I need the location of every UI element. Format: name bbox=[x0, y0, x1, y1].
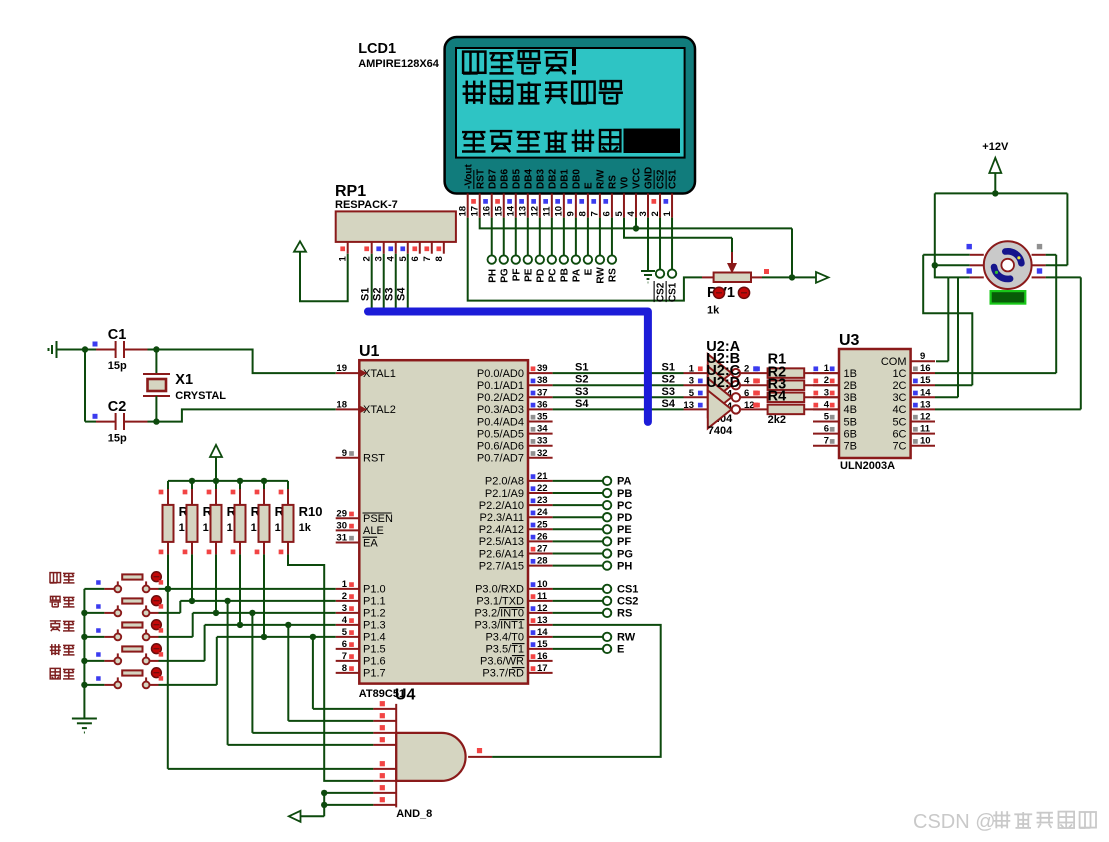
svg-text:RS: RS bbox=[617, 608, 632, 620]
svg-text:LCD1: LCD1 bbox=[358, 41, 396, 57]
svg-text:14: 14 bbox=[920, 387, 931, 398]
svg-text:P3.4/T0: P3.4/T0 bbox=[485, 632, 524, 644]
svg-text:3: 3 bbox=[638, 211, 649, 216]
svg-text:15: 15 bbox=[494, 205, 505, 216]
svg-text:16: 16 bbox=[537, 651, 548, 662]
svg-text:8: 8 bbox=[342, 663, 347, 674]
svg-text:10: 10 bbox=[920, 436, 931, 447]
svg-text:ALE: ALE bbox=[363, 525, 384, 537]
svg-text:12: 12 bbox=[530, 206, 541, 217]
svg-text:6C: 6C bbox=[892, 428, 906, 440]
svg-text:S3: S3 bbox=[662, 386, 675, 398]
svg-text:1: 1 bbox=[662, 211, 673, 217]
svg-text:22: 22 bbox=[537, 483, 548, 494]
svg-text:ULN2003A: ULN2003A bbox=[840, 460, 895, 472]
svg-text:RW: RW bbox=[617, 632, 636, 644]
svg-text:CS1: CS1 bbox=[668, 282, 679, 302]
svg-text:R/W: R/W bbox=[596, 169, 607, 189]
svg-text:10: 10 bbox=[554, 206, 565, 217]
svg-text:3: 3 bbox=[824, 387, 829, 398]
svg-text:6: 6 bbox=[824, 424, 829, 435]
svg-text:2: 2 bbox=[650, 211, 661, 216]
svg-text:PG: PG bbox=[499, 268, 510, 283]
svg-text:GND: GND bbox=[644, 167, 655, 189]
svg-text:P2.4/A12: P2.4/A12 bbox=[479, 524, 524, 536]
svg-text:PE: PE bbox=[617, 524, 632, 536]
svg-text:9: 9 bbox=[342, 448, 347, 459]
svg-text:12: 12 bbox=[920, 412, 931, 423]
svg-text:6: 6 bbox=[744, 388, 749, 399]
svg-text:P1.3: P1.3 bbox=[363, 620, 386, 632]
svg-text:PD: PD bbox=[535, 269, 546, 283]
svg-text:CS2: CS2 bbox=[656, 282, 667, 302]
svg-text:7C: 7C bbox=[892, 441, 906, 453]
svg-text:2: 2 bbox=[342, 591, 347, 602]
svg-text:12: 12 bbox=[537, 603, 548, 614]
svg-text:P2.5/A13: P2.5/A13 bbox=[479, 536, 524, 548]
svg-text:S1: S1 bbox=[662, 362, 675, 374]
svg-text:PF: PF bbox=[511, 269, 522, 282]
svg-text:RP1: RP1 bbox=[335, 183, 366, 200]
svg-text:5: 5 bbox=[689, 388, 695, 399]
svg-text:VCC: VCC bbox=[632, 168, 643, 189]
svg-text:P3.7/RD: P3.7/RD bbox=[482, 668, 524, 680]
svg-text:RST: RST bbox=[363, 453, 385, 465]
svg-text:38: 38 bbox=[537, 375, 548, 386]
svg-text:PE: PE bbox=[523, 268, 534, 282]
svg-text:29: 29 bbox=[336, 508, 347, 519]
svg-text:PB: PB bbox=[559, 268, 570, 282]
svg-text:U4: U4 bbox=[395, 687, 416, 704]
svg-text:3: 3 bbox=[342, 603, 347, 614]
svg-text:7B: 7B bbox=[844, 441, 857, 453]
svg-text:2k2: 2k2 bbox=[768, 414, 786, 426]
svg-text:11: 11 bbox=[920, 424, 931, 435]
svg-text:1B: 1B bbox=[844, 368, 857, 380]
svg-text:PH: PH bbox=[617, 560, 632, 572]
svg-text:34: 34 bbox=[537, 424, 548, 435]
svg-text:P2.2/A10: P2.2/A10 bbox=[479, 500, 524, 512]
svg-text:RST: RST bbox=[475, 169, 486, 189]
svg-text:26: 26 bbox=[537, 531, 548, 542]
svg-text:23: 23 bbox=[537, 495, 548, 506]
svg-text:16: 16 bbox=[920, 363, 931, 374]
svg-text:8: 8 bbox=[578, 211, 589, 216]
svg-text:5: 5 bbox=[614, 211, 625, 217]
svg-text:2: 2 bbox=[824, 375, 829, 386]
svg-text:DB5: DB5 bbox=[511, 169, 522, 189]
svg-text:P0.0/AD0: P0.0/AD0 bbox=[477, 368, 524, 380]
svg-text:24: 24 bbox=[537, 507, 548, 518]
svg-text:3C: 3C bbox=[892, 392, 906, 404]
svg-text:R10: R10 bbox=[299, 504, 323, 519]
svg-text:P1.0: P1.0 bbox=[363, 584, 386, 596]
svg-text:5C: 5C bbox=[892, 416, 906, 428]
svg-text:X1: X1 bbox=[175, 372, 193, 388]
svg-text:PSEN: PSEN bbox=[363, 513, 393, 525]
svg-text:XTAL2: XTAL2 bbox=[363, 404, 396, 416]
svg-text:7: 7 bbox=[422, 256, 433, 261]
svg-text:XTAL1: XTAL1 bbox=[363, 368, 396, 380]
svg-text:11: 11 bbox=[542, 206, 553, 217]
svg-text:P0.7/AD7: P0.7/AD7 bbox=[477, 453, 524, 465]
svg-text:39: 39 bbox=[537, 363, 548, 374]
svg-text:S1: S1 bbox=[360, 288, 372, 301]
svg-text:13: 13 bbox=[537, 615, 548, 626]
svg-text:E: E bbox=[584, 268, 595, 275]
svg-text:2C: 2C bbox=[892, 380, 906, 392]
svg-text:6: 6 bbox=[602, 211, 613, 216]
svg-text:32: 32 bbox=[537, 448, 548, 459]
svg-text:P0.5/AD5: P0.5/AD5 bbox=[477, 428, 524, 440]
svg-text:36: 36 bbox=[537, 399, 548, 410]
svg-text:2: 2 bbox=[744, 364, 749, 375]
svg-text:PB: PB bbox=[617, 488, 632, 500]
svg-text:C2: C2 bbox=[108, 399, 127, 415]
svg-text:7: 7 bbox=[342, 651, 347, 662]
svg-text:13: 13 bbox=[683, 400, 694, 411]
svg-text:S2: S2 bbox=[372, 288, 384, 301]
svg-text:DB3: DB3 bbox=[535, 169, 546, 189]
svg-text:21: 21 bbox=[537, 471, 548, 482]
svg-text:E: E bbox=[584, 182, 595, 189]
svg-text:+12V: +12V bbox=[982, 141, 1009, 153]
svg-text:13: 13 bbox=[518, 206, 529, 217]
svg-text:P1.5: P1.5 bbox=[363, 644, 386, 656]
svg-text:P0.6/AD6: P0.6/AD6 bbox=[477, 441, 524, 453]
svg-text:U2:D: U2:D bbox=[706, 375, 740, 391]
svg-text:27: 27 bbox=[537, 544, 548, 555]
svg-text:17: 17 bbox=[470, 206, 481, 217]
svg-text:12: 12 bbox=[744, 400, 755, 411]
svg-text:AMPIRE128X64: AMPIRE128X64 bbox=[358, 58, 440, 70]
svg-text:14: 14 bbox=[537, 627, 548, 638]
svg-text:DB0: DB0 bbox=[571, 169, 582, 189]
svg-text:13: 13 bbox=[920, 399, 931, 410]
svg-text:33: 33 bbox=[537, 436, 548, 447]
svg-text:11: 11 bbox=[537, 591, 548, 602]
svg-text:7: 7 bbox=[590, 211, 601, 216]
svg-text:1: 1 bbox=[689, 364, 695, 375]
svg-text:7: 7 bbox=[824, 436, 829, 447]
svg-text:U3: U3 bbox=[839, 332, 860, 349]
svg-text:PD: PD bbox=[617, 512, 632, 524]
svg-text:C1: C1 bbox=[108, 327, 127, 343]
svg-text:4: 4 bbox=[342, 615, 348, 626]
svg-text:S3: S3 bbox=[384, 288, 396, 301]
svg-text:4B: 4B bbox=[844, 404, 857, 416]
svg-text:P2.6/A14: P2.6/A14 bbox=[479, 548, 524, 560]
svg-text:RS: RS bbox=[608, 175, 619, 189]
svg-text:S4: S4 bbox=[662, 398, 676, 410]
svg-text:EA: EA bbox=[363, 537, 378, 549]
svg-text:P3.0/RXD: P3.0/RXD bbox=[475, 584, 524, 596]
svg-text:DB7: DB7 bbox=[487, 169, 498, 189]
svg-text:V0: V0 bbox=[620, 176, 631, 189]
svg-text:P0.1/AD1: P0.1/AD1 bbox=[477, 380, 524, 392]
svg-text:3B: 3B bbox=[844, 392, 857, 404]
svg-text:PC: PC bbox=[547, 268, 558, 282]
svg-text:RW: RW bbox=[596, 267, 607, 284]
svg-text:P1.4: P1.4 bbox=[363, 632, 386, 644]
svg-text:RS: RS bbox=[608, 268, 619, 282]
svg-text:10: 10 bbox=[537, 579, 548, 590]
svg-text:S2: S2 bbox=[575, 374, 588, 386]
svg-text:DB4: DB4 bbox=[523, 169, 534, 189]
svg-text:DB1: DB1 bbox=[559, 169, 570, 189]
svg-text:PC: PC bbox=[617, 500, 632, 512]
svg-text:1k: 1k bbox=[707, 305, 720, 317]
svg-text:P1.2: P1.2 bbox=[363, 608, 386, 620]
svg-text:RESPACK-7: RESPACK-7 bbox=[335, 199, 398, 211]
svg-text:PG: PG bbox=[617, 548, 633, 560]
svg-text:9: 9 bbox=[920, 351, 925, 362]
svg-text:7404: 7404 bbox=[708, 425, 733, 437]
svg-text:8: 8 bbox=[434, 256, 445, 261]
svg-text:15: 15 bbox=[920, 375, 931, 386]
svg-text:17: 17 bbox=[537, 663, 548, 674]
svg-text:COM: COM bbox=[881, 356, 907, 368]
svg-text:1: 1 bbox=[342, 579, 348, 590]
svg-text:1: 1 bbox=[824, 363, 830, 374]
svg-text:DB6: DB6 bbox=[499, 169, 510, 189]
svg-text:18: 18 bbox=[458, 206, 469, 217]
svg-text:P2.7/A15: P2.7/A15 bbox=[479, 560, 524, 572]
svg-text:P0.3/AD3: P0.3/AD3 bbox=[477, 404, 524, 416]
svg-text:5: 5 bbox=[824, 412, 830, 423]
svg-text:9: 9 bbox=[566, 211, 577, 216]
svg-text:P3.6/WR: P3.6/WR bbox=[480, 656, 524, 668]
svg-text:35: 35 bbox=[537, 412, 548, 423]
svg-text:S4: S4 bbox=[575, 398, 589, 410]
svg-text:28: 28 bbox=[537, 556, 548, 567]
svg-text:15p: 15p bbox=[108, 360, 127, 372]
svg-text:18: 18 bbox=[336, 399, 347, 410]
svg-text:19: 19 bbox=[336, 363, 347, 374]
svg-text:P3.3/INT1: P3.3/INT1 bbox=[474, 620, 524, 632]
svg-text:S2: S2 bbox=[662, 374, 675, 386]
svg-text:CS2: CS2 bbox=[617, 596, 638, 608]
svg-text:4C: 4C bbox=[892, 404, 906, 416]
svg-text:P3.2/INT0: P3.2/INT0 bbox=[474, 608, 524, 620]
svg-text:25: 25 bbox=[537, 519, 548, 530]
svg-text:P1.7: P1.7 bbox=[363, 668, 386, 680]
svg-text:4: 4 bbox=[824, 399, 830, 410]
svg-text:S3: S3 bbox=[575, 386, 588, 398]
svg-text:P0.4/AD4: P0.4/AD4 bbox=[477, 416, 524, 428]
svg-text:P2.1/A9: P2.1/A9 bbox=[485, 488, 524, 500]
svg-text:PA: PA bbox=[571, 269, 582, 282]
svg-text:P0.2/AD2: P0.2/AD2 bbox=[477, 392, 524, 404]
svg-text:15: 15 bbox=[537, 639, 548, 650]
svg-text:E: E bbox=[617, 644, 624, 656]
svg-text:P2.3/A11: P2.3/A11 bbox=[480, 512, 524, 524]
svg-text:6: 6 bbox=[410, 256, 421, 261]
svg-text:PA: PA bbox=[617, 476, 632, 488]
svg-text:16: 16 bbox=[482, 206, 493, 217]
svg-text:15p: 15p bbox=[108, 433, 127, 445]
svg-text:37: 37 bbox=[537, 387, 548, 398]
svg-text:3: 3 bbox=[689, 376, 694, 387]
svg-text:P3.5/T1: P3.5/T1 bbox=[485, 644, 524, 656]
svg-text:AND_8: AND_8 bbox=[396, 808, 432, 820]
svg-text:P2.0/A8: P2.0/A8 bbox=[485, 476, 524, 488]
svg-text:31: 31 bbox=[336, 533, 347, 544]
svg-text:2B: 2B bbox=[844, 380, 857, 392]
svg-text:30: 30 bbox=[336, 520, 347, 531]
svg-text:4: 4 bbox=[744, 376, 750, 387]
svg-text:S4: S4 bbox=[396, 287, 408, 301]
svg-text:P1.1: P1.1 bbox=[363, 596, 386, 608]
svg-text:CS1: CS1 bbox=[617, 584, 638, 596]
svg-text:R4: R4 bbox=[768, 389, 787, 405]
svg-text:P1.6: P1.6 bbox=[363, 656, 386, 668]
svg-text:6B: 6B bbox=[844, 428, 857, 440]
svg-text:PF: PF bbox=[617, 536, 631, 548]
svg-text:S1: S1 bbox=[575, 362, 588, 374]
svg-text:PH: PH bbox=[487, 269, 498, 283]
svg-text:P3.1/TXD: P3.1/TXD bbox=[476, 596, 524, 608]
svg-text:5B: 5B bbox=[844, 416, 857, 428]
svg-text:CS1: CS1 bbox=[668, 169, 679, 189]
svg-text:CS2: CS2 bbox=[656, 169, 667, 189]
svg-text:1C: 1C bbox=[892, 368, 906, 380]
svg-text:6: 6 bbox=[342, 639, 347, 650]
svg-text:5: 5 bbox=[342, 627, 348, 638]
svg-text:CSDN @: CSDN @ bbox=[913, 811, 996, 833]
svg-text:DB2: DB2 bbox=[547, 169, 558, 189]
svg-text:4: 4 bbox=[626, 211, 637, 217]
svg-text:U1: U1 bbox=[359, 343, 380, 360]
svg-text:CRYSTAL: CRYSTAL bbox=[175, 390, 226, 402]
svg-text:1k: 1k bbox=[299, 522, 312, 534]
svg-text:14: 14 bbox=[506, 205, 517, 216]
svg-text:-Vout: -Vout bbox=[463, 164, 474, 189]
